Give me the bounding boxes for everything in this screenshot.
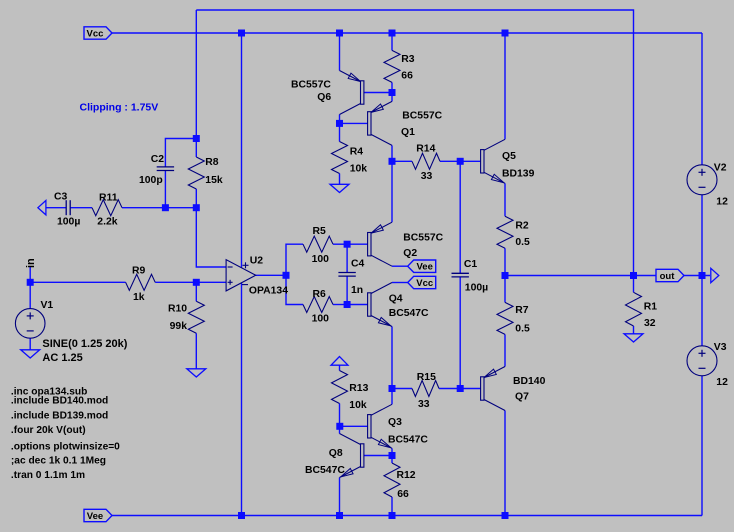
svg-text:C3: C3 (54, 192, 68, 203)
svg-text:100µ: 100µ (57, 217, 80, 228)
svg-text:15k: 15k (205, 175, 223, 186)
svg-text:.options plotwinsize=0: .options plotwinsize=0 (11, 442, 120, 453)
svg-text:Q7: Q7 (515, 392, 529, 403)
svg-text:R10: R10 (168, 304, 187, 315)
svg-text:SINE(0 1.25 20k): SINE(0 1.25 20k) (42, 338, 127, 350)
svg-text:R6: R6 (313, 289, 327, 300)
svg-text:R14: R14 (416, 144, 435, 155)
svg-text:BC557C: BC557C (291, 80, 331, 91)
svg-text:R13: R13 (349, 383, 368, 394)
svg-text:.four 20k V(out): .four 20k V(out) (11, 425, 86, 436)
svg-text:;ac dec 1k 0.1 1Meg: ;ac dec 1k 0.1 1Meg (11, 456, 106, 467)
svg-text:BD139: BD139 (502, 169, 535, 180)
svg-text:R11: R11 (99, 193, 118, 204)
svg-text:Vcc: Vcc (416, 278, 433, 289)
svg-text:V2: V2 (714, 163, 727, 174)
svg-text:R4: R4 (350, 146, 364, 157)
svg-text:C4: C4 (351, 258, 365, 269)
svg-text:R15: R15 (417, 372, 436, 383)
svg-text:C2: C2 (151, 154, 165, 165)
svg-text:R2: R2 (515, 221, 529, 232)
svg-text:OPA134: OPA134 (249, 285, 288, 296)
svg-text:AC 1.25: AC 1.25 (42, 352, 82, 364)
svg-text:33: 33 (421, 171, 433, 182)
svg-text:R3: R3 (401, 54, 415, 65)
svg-text:BD140: BD140 (513, 376, 546, 387)
svg-text:in: in (25, 258, 37, 268)
svg-text:C1: C1 (464, 259, 478, 270)
svg-text:BC557C: BC557C (403, 232, 443, 243)
svg-text:Q2: Q2 (403, 248, 417, 259)
svg-text:Clipping : 1.75V: Clipping : 1.75V (80, 102, 159, 114)
svg-text:99k: 99k (170, 321, 188, 332)
svg-text:Vee: Vee (417, 262, 433, 273)
svg-text:BC547C: BC547C (388, 434, 428, 445)
svg-text:Vee: Vee (87, 511, 103, 522)
svg-text:66: 66 (401, 71, 413, 82)
svg-text:Q4: Q4 (389, 294, 403, 305)
svg-text:1n: 1n (351, 285, 363, 296)
svg-text:Q1: Q1 (401, 127, 415, 138)
svg-text:66: 66 (397, 489, 409, 500)
svg-text:R1: R1 (644, 302, 658, 313)
svg-text:Vcc: Vcc (87, 28, 104, 39)
svg-text:Q6: Q6 (317, 92, 331, 103)
svg-text:.include BD139.mod: .include BD139.mod (11, 411, 108, 422)
svg-text:1k: 1k (133, 292, 145, 303)
svg-text:12: 12 (716, 196, 728, 207)
svg-text:100: 100 (312, 254, 330, 265)
svg-text:R8: R8 (205, 157, 219, 168)
svg-text:R12: R12 (397, 470, 416, 481)
svg-text:U2: U2 (250, 256, 264, 267)
svg-text:.tran 0 1.1m 1m: .tran 0 1.1m 1m (11, 470, 85, 481)
svg-text:10k: 10k (349, 400, 367, 411)
svg-text:12: 12 (716, 377, 728, 388)
svg-text:Q8: Q8 (329, 448, 343, 459)
svg-text:0.5: 0.5 (515, 323, 530, 334)
svg-text:R7: R7 (515, 305, 529, 316)
svg-text:Q5: Q5 (502, 151, 516, 162)
svg-text:V1: V1 (41, 300, 54, 311)
svg-text:.include BD140.mod: .include BD140.mod (11, 396, 108, 407)
svg-text:BC547C: BC547C (305, 465, 345, 476)
svg-text:10k: 10k (350, 164, 368, 175)
svg-text:BC547C: BC547C (389, 308, 429, 319)
svg-text:100: 100 (312, 313, 330, 324)
svg-text:2.2k: 2.2k (97, 217, 117, 228)
svg-text:out: out (660, 271, 676, 282)
svg-text:32: 32 (644, 318, 656, 329)
svg-text:0.5: 0.5 (515, 237, 530, 248)
svg-text:R9: R9 (132, 266, 146, 277)
svg-text:BC557C: BC557C (402, 111, 442, 122)
svg-text:V3: V3 (714, 342, 727, 353)
svg-text:R5: R5 (313, 226, 327, 237)
svg-text:Q3: Q3 (388, 417, 402, 428)
svg-text:100µ: 100µ (465, 283, 488, 294)
svg-text:33: 33 (418, 399, 430, 410)
svg-text:100p: 100p (139, 175, 163, 186)
